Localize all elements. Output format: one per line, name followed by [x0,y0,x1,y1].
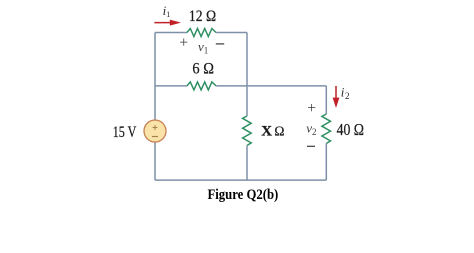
svg-text:X: X [261,123,272,139]
resistor R 6ohm zigzag [187,82,216,90]
resistor R 12ohm zigzag [187,29,216,37]
wire: right vertical upper segment (node C to 40-ohm) [325,86,327,114]
voltage source V1 15V circle [144,120,166,142]
current arrow i1 (red, pointing right) [154,20,181,26]
svg-text:40 Ω: 40 Ω [337,120,364,139]
label minus (v1 polarity) [216,43,224,45]
wire: second horizontal left segment (left rail to 6-ohm) [155,85,187,87]
svg-text:i1: i1 [163,3,171,19]
wire: top-right horizontal segment (12-ohm right lead to node B) [216,32,247,34]
wire: middle vertical upper segment (node B down to X resistor) [246,33,248,117]
wire: left vertical (through voltage source) [154,33,156,181]
svg-text:v2: v2 [306,121,316,138]
label minus (v2 polarity) [307,145,315,147]
svg-text:i2: i2 [341,85,350,101]
svg-text:+: + [179,35,188,52]
svg-text:12 Ω: 12 Ω [189,8,216,25]
current arrow i2 (red, pointing down) [333,86,340,108]
wire: top-left horizontal segment (node A to 12-ohm left lead) [155,32,187,34]
resistor X-ohm zigzag (middle branch) [243,116,252,146]
resistor R 40ohm zigzag [322,114,331,144]
svg-text:+: + [307,100,316,117]
svg-text:15 V: 15 V [113,124,137,141]
wire: second horizontal right segment (6-ohm to right rail node C) [216,85,326,87]
svg-text:v1: v1 [198,39,208,56]
svg-text:Ω: Ω [274,123,284,138]
wire: right vertical lower segment (40-ohm to bottom wire) [325,144,327,181]
svg-text:Figure Q2(b): Figure Q2(b) [208,187,279,203]
wire: middle vertical lower segment (X resistor to bottom wire) [246,146,248,181]
wire: bottom horizontal [155,179,326,181]
svg-text:6 Ω: 6 Ω [192,61,214,78]
